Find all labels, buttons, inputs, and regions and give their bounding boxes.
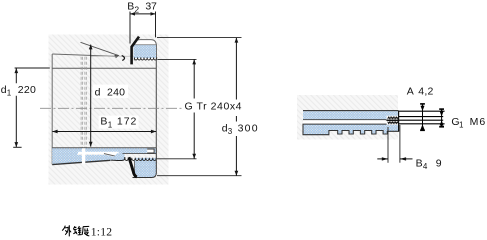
taper note: 1:12	[91, 226, 112, 239]
centerline	[40, 107, 206, 109]
label d1 220	[1, 84, 37, 98]
thread crest line	[91, 55, 134, 57]
M6 hole thread detail	[386, 111, 399, 132]
dimension A arrows	[420, 104, 425, 130]
svg-text:4: 4	[423, 162, 428, 171]
svg-text:Tr 240x4: Tr 240x4	[197, 100, 242, 112]
svg-text:1: 1	[459, 120, 464, 129]
taper note: hanzi wai	[62, 225, 71, 236]
band bottom edge	[123, 153, 157, 155]
svg-text:A: A	[407, 85, 414, 97]
svg-text:M6: M6	[470, 116, 486, 128]
hatched backdrop of main view	[49, 35, 169, 185]
detail lower wall section with castellations	[303, 124, 399, 135]
dimension d3 line with arrows	[235, 38, 239, 176]
dimension B2 extension lines	[130, 12, 156, 44]
svg-text:2: 2	[134, 4, 139, 14]
svg-text:9: 9	[436, 158, 442, 170]
detail sleeve top edge	[303, 110, 399, 112]
lock washer top tab	[132, 37, 139, 65]
sleeve bottom wedge	[52, 153, 122, 165]
dimension B2 line with arrows	[130, 12, 156, 16]
dimension G line with arrows	[192, 59, 196, 158]
sleeve slit (white gap in section)	[82, 148, 85, 164]
sleeve tapered top edge	[52, 54, 117, 56]
taper leader line	[81, 42, 120, 58]
dimension B1 line with arrows	[52, 130, 156, 134]
svg-text:1:12: 1:12	[91, 226, 112, 239]
dimension G1 arrows	[439, 109, 444, 127]
svg-text:1: 1	[108, 120, 113, 129]
dimension d1 extension lines	[13, 68, 50, 147]
lock washer bottom tab	[129, 157, 137, 177]
svg-text:1: 1	[7, 88, 12, 97]
label B1 172	[99, 116, 139, 130]
svg-text:37: 37	[145, 0, 157, 12]
hole projection lines	[399, 111, 445, 124]
lock nut bottom section	[133, 148, 157, 178]
label G Tr 240x4	[183, 100, 243, 112]
slit dashed line right	[85, 57, 86, 148]
detail bore slot	[303, 120, 387, 123]
sleeve bottom nose	[111, 153, 125, 160]
svg-text:d: d	[95, 87, 101, 99]
svg-text:3: 3	[228, 127, 233, 136]
dimension G extension lines	[157, 59, 197, 158]
thread runout hook	[122, 56, 125, 61]
svg-text:220: 220	[18, 84, 36, 96]
dimension B4 extension lines	[388, 125, 400, 163]
svg-text:B: B	[416, 158, 423, 170]
svg-text:172: 172	[117, 116, 137, 128]
slit dashed line left	[81, 57, 82, 148]
taper note: hanzi du	[82, 226, 89, 236]
detail upper wall section	[303, 111, 399, 119]
label G1 M6	[451, 116, 485, 129]
label B2 37	[127, 0, 157, 14]
lock nut bottom thread (wavy)	[125, 158, 157, 161]
dimension d line with arrows	[89, 44, 93, 146]
svg-text:G: G	[185, 100, 193, 112]
taper note: hanzi zhui	[73, 226, 81, 235]
sleeve bore line	[52, 67, 156, 69]
label d 240	[93, 85, 129, 99]
lock nut top thread (wavy)	[134, 57, 156, 60]
lock nut top section	[134, 40, 157, 61]
svg-text:4,2: 4,2	[418, 85, 433, 97]
hatched backdrop of detail view	[297, 95, 398, 140]
svg-text:B: B	[127, 0, 134, 12]
svg-text:B: B	[100, 116, 107, 128]
dimension d1 line with arrows	[14, 68, 18, 147]
label B4 9	[416, 158, 442, 171]
dimension B4 arrows	[377, 157, 412, 160]
sleeve body left edge	[51, 54, 53, 164]
sleeve right edge	[155, 44, 157, 148]
label A 4,2	[407, 85, 434, 97]
dimension d3 extension lines	[157, 38, 242, 176]
label d3 300	[220, 122, 260, 137]
washer tab pocket	[147, 149, 154, 153]
sleeve bottom section band	[52, 148, 156, 154]
svg-text:300: 300	[238, 123, 258, 135]
sleeve-nut clearance slot	[78, 152, 122, 158]
svg-text:240: 240	[107, 87, 125, 99]
